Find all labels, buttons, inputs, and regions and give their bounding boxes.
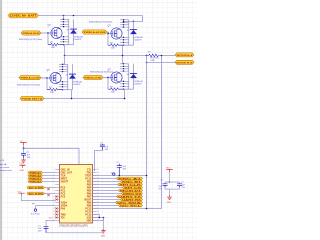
svg-text:DNP: DNP xyxy=(151,60,156,62)
wire to pin 32 xyxy=(93,205,119,207)
test point TP left xyxy=(36,205,56,207)
wire VCC feed horizontal xyxy=(24,145,80,165)
port label MOTOR B xyxy=(175,60,194,64)
port label 12VDC M+ BATT xyxy=(8,13,39,18)
transistor Q1 MOSFET circle xyxy=(51,27,62,38)
port label MOTOR A xyxy=(175,53,194,57)
wire to pin 29 xyxy=(93,196,117,198)
free-wheel diode of Q3 xyxy=(72,64,74,89)
wire cap bottom to gnd net xyxy=(46,232,104,234)
svg-text:10K: 10K xyxy=(111,92,115,94)
wire VCC down xyxy=(169,172,171,182)
no-ERC marks left pins xyxy=(55,195,57,218)
net label PWM A1 xyxy=(28,171,43,174)
wire sense to label B xyxy=(147,62,176,64)
net label PWM B1 xyxy=(28,177,43,180)
wire to pin 30 xyxy=(93,199,121,201)
wire to pin 23 xyxy=(93,178,117,180)
svg-text:PWM A-LO IN: PWM A-LO IN xyxy=(21,77,40,80)
no-ERC mark xyxy=(47,194,49,196)
svg-text:BSS108(V)(3.3V)(Tube): BSS108(V)(3.3V)(Tube) xyxy=(89,22,113,24)
transistor Q2 MOSFET circle xyxy=(111,28,122,39)
wire Q1 source drop xyxy=(64,45,66,56)
svg-text:VCC: VCC xyxy=(49,217,54,219)
long vertical wire sense 1 xyxy=(146,56,148,209)
wire Q3 drain riser xyxy=(63,56,65,65)
wire VCC to pin 12 xyxy=(22,193,56,200)
long vertical wire sense 2 xyxy=(161,56,163,209)
gate port label Q3 xyxy=(19,76,41,80)
svg-text:12VDC M+ BATT: 12VDC M+ BATT xyxy=(10,14,38,17)
svg-text:PWM A-HI IN: PWM A-HI IN xyxy=(23,32,40,35)
wire gate Q2 xyxy=(107,32,111,33)
svg-text:GND: GND xyxy=(167,202,172,204)
svg-text:PWM A-HI IN2: PWM A-HI IN2 xyxy=(84,31,107,34)
wire rails of Q1 xyxy=(64,19,74,44)
junction dots ground rail xyxy=(71,98,73,100)
svg-text:10K: 10K xyxy=(51,47,55,49)
gate port label Q4 xyxy=(83,75,103,79)
ground mid-left xyxy=(21,158,26,162)
net label UART RX xyxy=(121,198,143,201)
capacitor C? 1uF mid-left xyxy=(23,148,25,153)
junction dots phase node xyxy=(64,55,66,57)
svg-text:123456789101112131415161718: 123456789101112131415161718 xyxy=(53,169,55,222)
svg-text:ADC A SEN: ADC A SEN xyxy=(29,186,44,189)
pins of Q4 xyxy=(120,64,129,89)
gate wire and pulldown resistor R? 10K of Q1 xyxy=(47,33,49,45)
wire ground rail xyxy=(44,98,126,100)
net label ADC B SEN xyxy=(27,192,45,195)
wire pin18 to cap xyxy=(46,221,55,229)
svg-text:PGND MOT A: PGND MOT A xyxy=(22,97,43,100)
gate wire and pulldown resistor R? 10K of Q4 xyxy=(107,78,109,90)
wire to pin 24 xyxy=(93,181,121,183)
gate wire and pulldown resistor R? 10K of Q2 xyxy=(107,34,109,46)
wire phase node horizontal xyxy=(65,55,148,57)
transistor Q3 MOSFET circle xyxy=(50,72,61,83)
wire to pin 7 xyxy=(45,187,56,189)
wire to pin 28 xyxy=(93,193,122,195)
svg-text:rated mA: rated mA xyxy=(0,163,7,166)
wire to pin 5 xyxy=(43,181,56,183)
svg-text:MOTOR M- B: MOTOR M- B xyxy=(177,62,193,64)
net label ENC B1 xyxy=(121,180,143,183)
svg-text:GND: GND xyxy=(20,170,25,172)
capacitor C? 1uF bottom-left xyxy=(44,227,49,233)
svg-text:PWM A-LO IN2: PWM A-LO IN2 xyxy=(85,76,103,79)
svg-text:10K: 10K xyxy=(111,48,115,50)
free-wheel diode of Q4 xyxy=(133,64,135,89)
net label UART TX xyxy=(117,195,143,198)
pins of Q2 xyxy=(120,20,129,45)
wire caps to ground xyxy=(169,189,171,195)
svg-text:MOTOR M+ A: MOTOR M+ A xyxy=(177,54,193,57)
svg-text:STM32F103RCBT6(LQFP): STM32F103RCBT6(LQFP) xyxy=(59,225,88,228)
no-ERC mark xyxy=(47,188,49,190)
junction dots on 12V rail xyxy=(63,15,65,17)
wire pins 34-36 tie xyxy=(93,215,104,221)
gate port label Q2 xyxy=(82,30,107,34)
svg-text:max current: max current xyxy=(0,166,9,169)
capacitor C? right mid xyxy=(117,164,122,176)
MCU right pins xyxy=(93,170,97,221)
wire gate Q4 xyxy=(103,77,111,79)
free-wheel diode of Q2 xyxy=(133,20,135,45)
net label I2C SDA xyxy=(116,201,143,204)
sheet left edge xyxy=(0,0,2,240)
svg-text:1A-8KIT: 1A-8KIT xyxy=(73,83,81,86)
svg-text:1A-8KIT: 1A-8KIT xyxy=(74,38,82,41)
svg-text:in bridge mode: in bridge mode xyxy=(0,169,13,172)
op-amp U1 MCU STM32 body xyxy=(60,165,93,224)
pins of Q1 xyxy=(60,19,69,44)
wire down to ground xyxy=(103,218,105,230)
ground top-right xyxy=(167,196,172,200)
wire sense return bottom xyxy=(93,208,162,210)
wire Q4 source drop xyxy=(124,89,126,98)
wire Q1 drain riser xyxy=(63,16,65,20)
wire 12V rail top xyxy=(39,15,143,17)
wire pin22 sense line xyxy=(93,175,147,177)
wire rails of Q2 xyxy=(124,20,134,45)
svg-text:ADC B SEN: ADC B SEN xyxy=(29,192,44,195)
ground bottom center xyxy=(101,229,106,233)
wire cap bus xyxy=(165,182,180,189)
capacitor C? 1uF 25V a xyxy=(163,184,168,188)
port label PGND xyxy=(20,96,44,100)
wire rails of Q4 xyxy=(124,64,134,89)
svg-text:PWM B2: PWM B2 xyxy=(30,181,42,183)
transistor Q4 MOSFET circle xyxy=(111,72,122,83)
pins of Q3 xyxy=(59,64,68,89)
wire Q3 source drop xyxy=(71,90,73,99)
svg-text:GND: GND xyxy=(101,236,106,238)
svg-text:BSS108(V)(3.3V)(Tube): BSS108(V)(3.3V)(Tube) xyxy=(90,71,114,73)
svg-text:1A-8KIT: 1A-8KIT xyxy=(134,83,142,86)
free-wheel diode of Q1 xyxy=(73,19,75,44)
wire to pin 9 xyxy=(45,193,56,195)
net label PWM A2 xyxy=(28,174,43,177)
wire to pin 3 xyxy=(43,175,56,177)
wire to pin 25 xyxy=(93,184,118,186)
gate wire and pulldown resistor R? 10K of Q3 xyxy=(46,78,48,90)
wire shunt to label A xyxy=(161,55,176,57)
wire to pin 2 xyxy=(43,172,56,174)
wire to pin 31 xyxy=(93,202,116,204)
wire Q2 source drop to Q4 xyxy=(122,45,124,64)
wire to pin 27 xyxy=(93,190,119,192)
wire to pin 4 xyxy=(43,178,56,180)
net label ENC A1 xyxy=(117,177,143,180)
junction dots Q2 top xyxy=(123,21,125,23)
svg-text:Test Point: Test Point xyxy=(31,212,41,215)
svg-text:BSS108(V)(3.3V)(Tube): BSS108(V)(3.3V)(Tube) xyxy=(17,85,41,87)
wire gate Q1 xyxy=(41,32,51,34)
svg-text:10K: 10K xyxy=(50,92,54,94)
net label ADC A SEN xyxy=(27,186,45,189)
capacitor C? 1uF 25V b xyxy=(177,184,182,188)
MCU left pins xyxy=(55,170,59,221)
wire to pin 26 xyxy=(93,187,123,189)
wire gate Q3 xyxy=(41,77,50,79)
gate port label Q1 xyxy=(21,31,41,35)
wire rails of Q3 xyxy=(63,64,73,89)
svg-text:BSS108(V)(3.3V)(Tube): BSS108(V)(3.3V)(Tube) xyxy=(19,39,43,41)
net label PWM B2 xyxy=(28,180,43,183)
svg-text:1A-8KIT: 1A-8KIT xyxy=(134,39,142,42)
net label SPI CLK xyxy=(118,183,143,186)
svg-text:Vin 3V: Vin 3V xyxy=(0,160,5,162)
net label MOSI D1 xyxy=(119,189,143,192)
net label MISO D2 xyxy=(122,192,143,195)
net label I2C SCL xyxy=(119,204,143,207)
wire cap to MCU pin riser xyxy=(95,151,103,172)
svg-text:I2C SCL: I2C SCL xyxy=(120,205,142,207)
wire 12V drop to Q2 xyxy=(124,16,143,22)
net label SPI CS xyxy=(123,186,143,189)
shunt resistor R? 1.3m Ohm xyxy=(147,54,161,57)
